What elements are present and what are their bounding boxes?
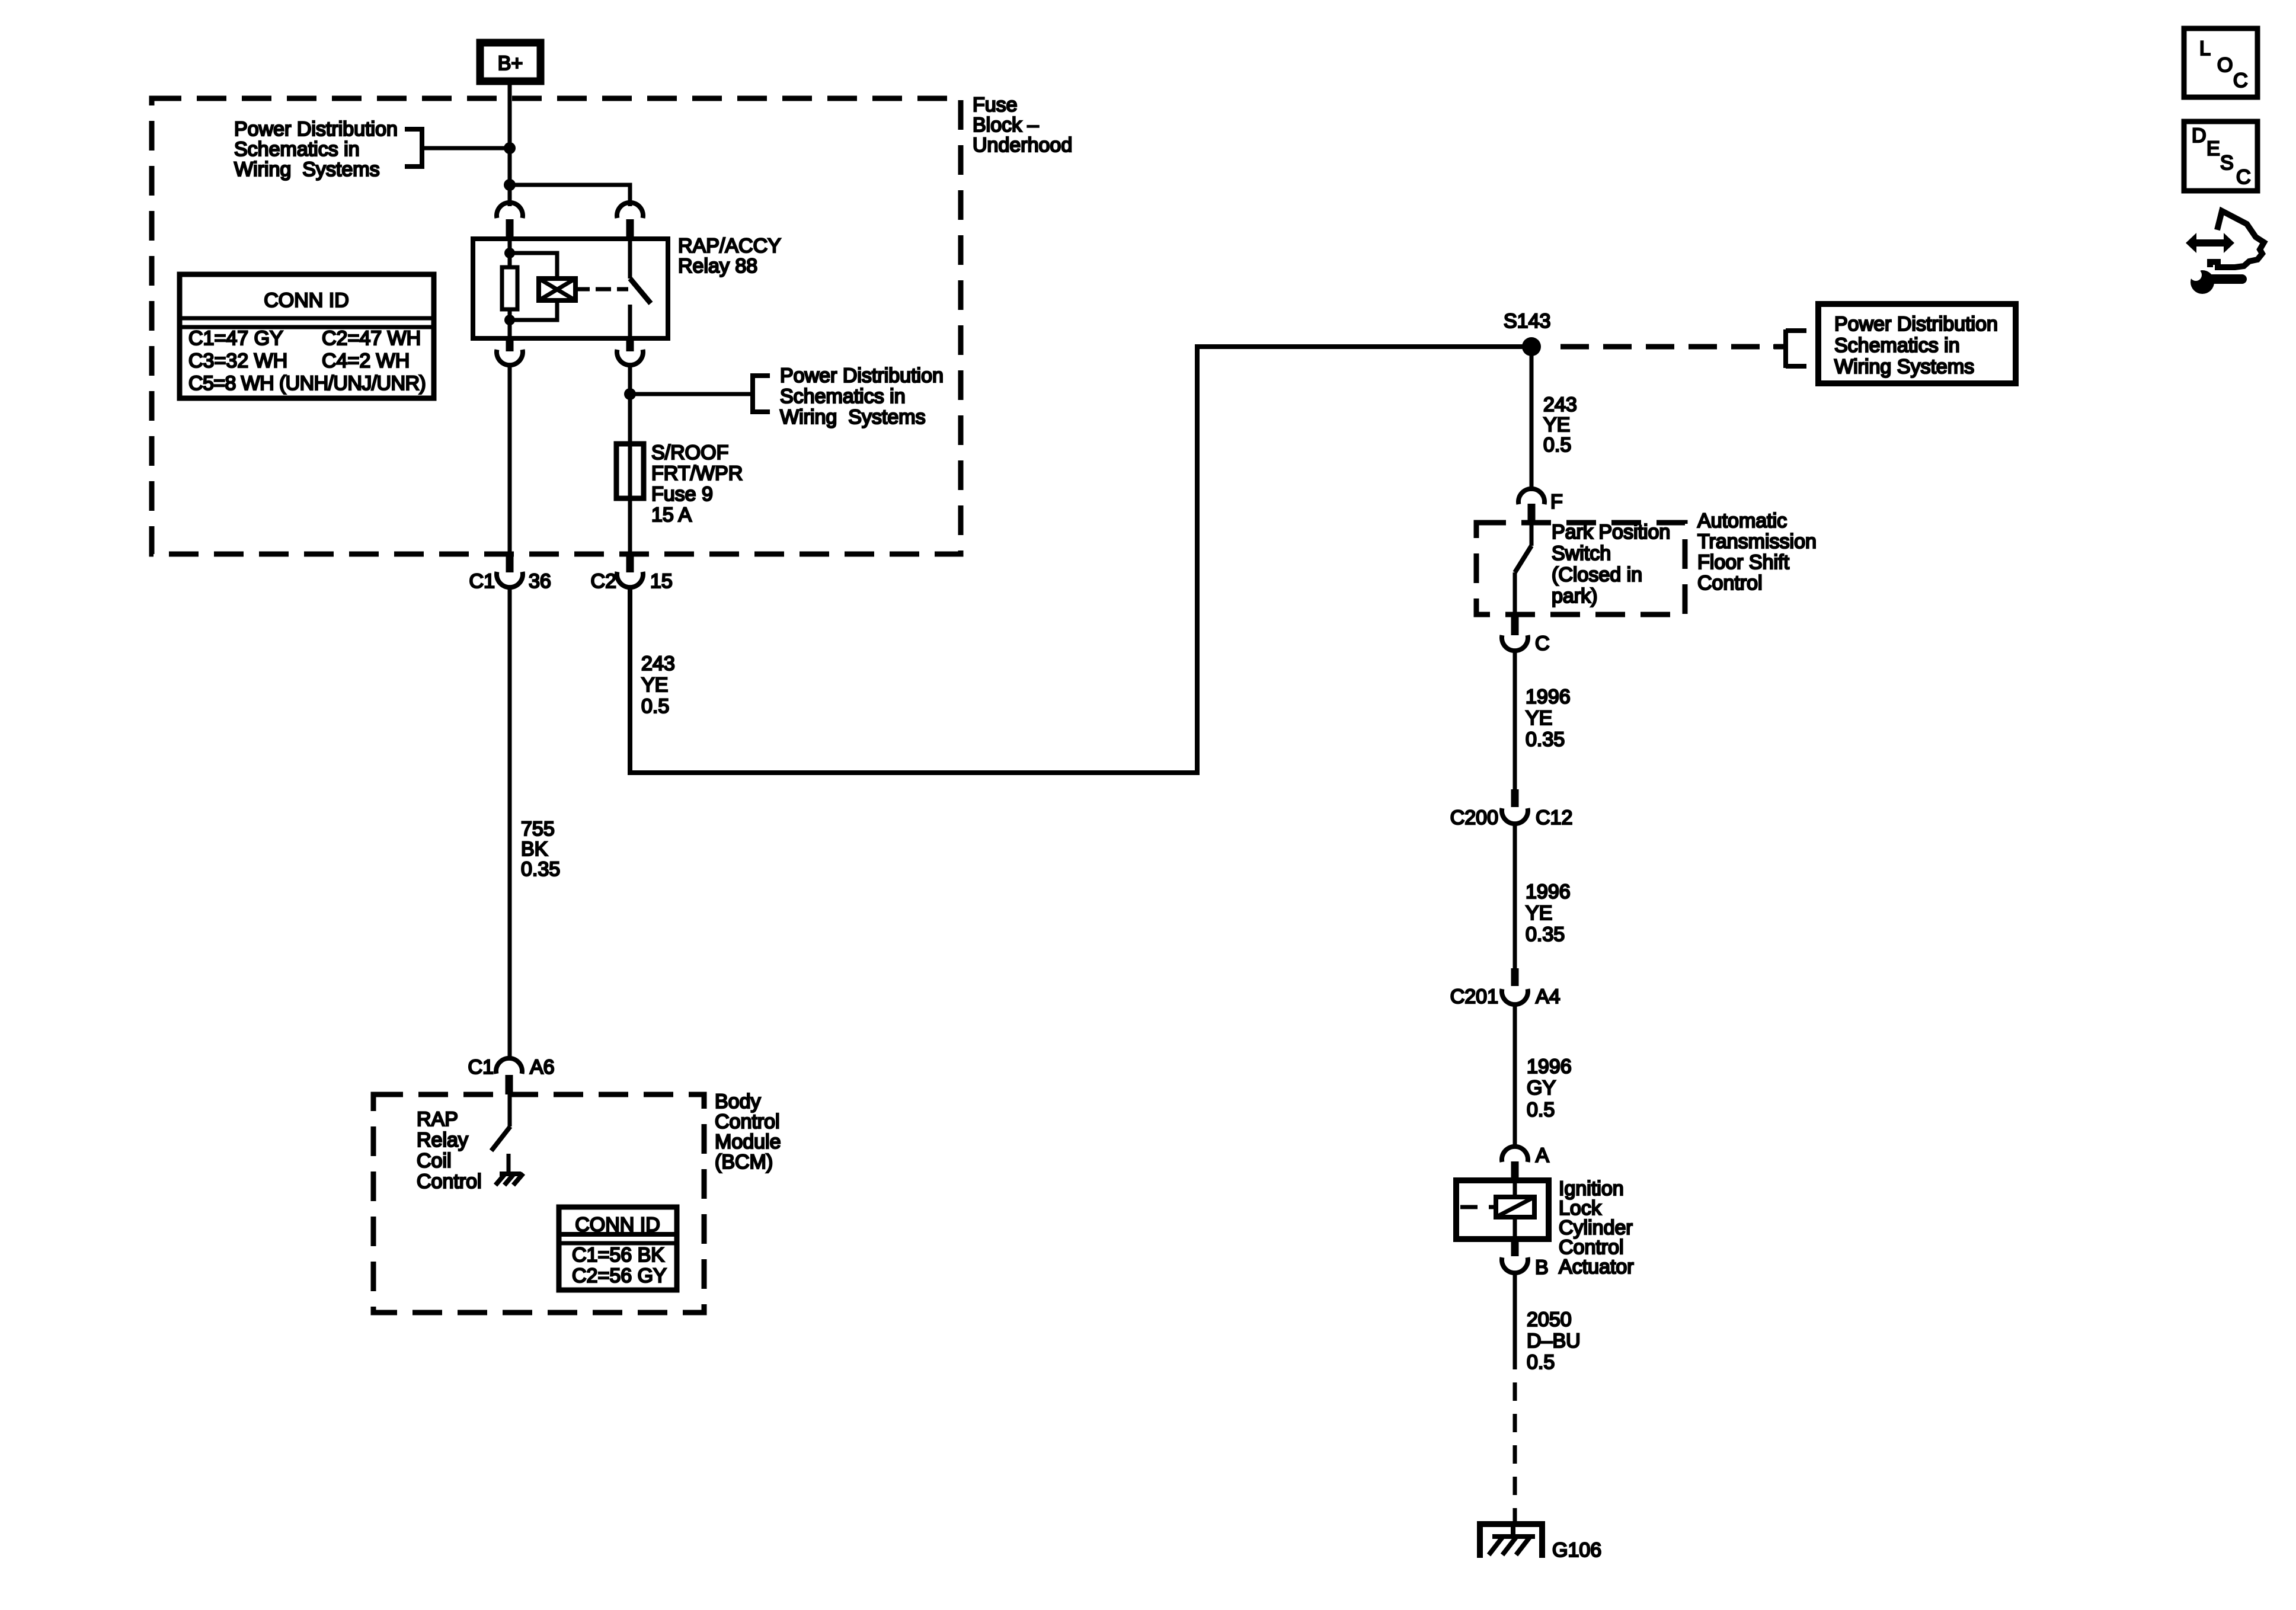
svg-text:Floor Shift: Floor Shift bbox=[1697, 551, 1789, 574]
connector below relay switch side (cup) bbox=[617, 350, 643, 365]
pin stub switch side bbox=[626, 219, 634, 239]
label wire 1996 YE 0.35 (2) bbox=[1526, 881, 1571, 946]
svg-text:B+: B+ bbox=[498, 52, 523, 75]
svg-text:YE: YE bbox=[641, 674, 668, 696]
svg-text:Power Distribution: Power Distribution bbox=[1834, 313, 1998, 335]
svg-text:36: 36 bbox=[529, 570, 551, 593]
label RAP Relay Coil Control bbox=[417, 1108, 482, 1193]
wire relay coil output down to C1 bbox=[508, 365, 512, 558]
connector A into actuator (dome) bbox=[1502, 1144, 1549, 1167]
icon DESC box bbox=[2184, 121, 2257, 191]
label Power Distribution Schematics (top left) bbox=[234, 118, 398, 181]
svg-text:B: B bbox=[1535, 1256, 1549, 1279]
wire relay switch output down to C2 bbox=[628, 365, 632, 558]
bracket to Power Distribution box bbox=[1773, 329, 1806, 368]
svg-text:Automatic: Automatic bbox=[1697, 510, 1787, 532]
wire B+ down bbox=[508, 81, 512, 206]
label wire 1996 GY 0.5 bbox=[1527, 1055, 1572, 1121]
svg-text:Relay: Relay bbox=[417, 1129, 468, 1151]
svg-text:2050: 2050 bbox=[1527, 1308, 1572, 1331]
node junction to power distribution tap bbox=[624, 388, 636, 400]
label Power Distribution Schematics (mid) bbox=[780, 364, 944, 428]
connector C200 pin C12 bbox=[1450, 789, 1573, 829]
wire dashed to G106 bbox=[1513, 1369, 1517, 1524]
svg-text:Power Distribution: Power Distribution bbox=[234, 118, 398, 140]
svg-text:Switch: Switch bbox=[1552, 542, 1611, 565]
svg-text:755: 755 bbox=[521, 818, 555, 840]
svg-text:Wiring Systems: Wiring Systems bbox=[1834, 356, 1974, 378]
label Automatic Transmission Floor Shift Control bbox=[1697, 510, 1817, 594]
label wire 2050 D-BU 0.5 bbox=[1527, 1308, 1581, 1374]
svg-text:Schematics in: Schematics in bbox=[234, 138, 360, 161]
svg-text:243: 243 bbox=[641, 652, 675, 675]
label RAP/ACCY Relay 88 bbox=[678, 235, 781, 277]
icon double arrow bbox=[2186, 233, 2234, 253]
svg-text:0.5: 0.5 bbox=[1527, 1099, 1555, 1121]
BCM dashed box bbox=[373, 1094, 704, 1313]
CONN ID table (BCM) bbox=[559, 1207, 677, 1290]
label Ignition Lock Cylinder Control Actuator bbox=[1559, 1177, 1634, 1278]
svg-text:(BCM): (BCM) bbox=[715, 1151, 773, 1173]
node coil top bbox=[504, 248, 515, 258]
svg-text:C200: C200 bbox=[1450, 806, 1498, 829]
svg-text:CONN ID: CONN ID bbox=[264, 289, 349, 312]
connector B below actuator (cup) bbox=[1502, 1239, 1549, 1279]
switch RAP relay coil control driver bbox=[491, 1094, 510, 1173]
wire relay coil vertical bbox=[508, 239, 512, 338]
svg-text:C2: C2 bbox=[591, 570, 616, 593]
svg-text:S143: S143 bbox=[1504, 310, 1550, 332]
pin stub into BCM bbox=[506, 1075, 513, 1094]
relay coil winding symbol bbox=[539, 279, 575, 300]
svg-text:BK: BK bbox=[521, 838, 548, 860]
solenoid symbol inside actuator bbox=[1496, 1197, 1534, 1217]
park position switch dashed box bbox=[1476, 523, 1685, 614]
svg-text:D–BU: D–BU bbox=[1527, 1330, 1581, 1352]
svg-text:C201: C201 bbox=[1450, 985, 1498, 1008]
svg-text:15 A: 15 A bbox=[651, 504, 692, 526]
pin stub A bbox=[1511, 1161, 1519, 1180]
label wire 755 BK 0.35 bbox=[521, 818, 560, 881]
wire through actuator bbox=[1513, 1180, 1517, 1239]
svg-text:1996: 1996 bbox=[1527, 1055, 1572, 1078]
relay U (RAP/ACCY Relay 88) box bbox=[473, 239, 668, 338]
wire junction to bracket bbox=[630, 392, 753, 396]
connector C below park switch (cup) bbox=[1502, 614, 1550, 655]
svg-text:C12: C12 bbox=[1536, 806, 1572, 829]
svg-text:243: 243 bbox=[1543, 393, 1577, 416]
power symbol B+ bbox=[480, 43, 541, 81]
svg-text:Fuse 9: Fuse 9 bbox=[651, 483, 713, 505]
ground internal BCM bbox=[495, 1173, 523, 1185]
CONN ID table (fuse block) bbox=[180, 274, 434, 398]
svg-text:YE: YE bbox=[1526, 707, 1552, 729]
wire dashed S143 to power distribution bbox=[1560, 344, 1786, 350]
node junction at bracket tap bbox=[504, 142, 516, 154]
wire branch to relay switch side bbox=[510, 185, 630, 206]
resistor relay coil suppression bbox=[502, 267, 517, 309]
svg-text:Module: Module bbox=[715, 1131, 781, 1153]
svg-text:1996: 1996 bbox=[1526, 881, 1571, 903]
svg-text:Schematics in: Schematics in bbox=[1834, 334, 1960, 357]
svg-text:C: C bbox=[2233, 69, 2248, 92]
mechanical link dashes bbox=[596, 287, 628, 292]
pin stub below relay switch side bbox=[626, 338, 634, 351]
svg-text:S: S bbox=[2220, 152, 2234, 174]
connector C2 pin 15 bbox=[591, 556, 673, 593]
wire 243 YE from C2 to S143 bbox=[630, 347, 1523, 773]
wire S143 down to F bbox=[1530, 354, 1534, 491]
bracket to Power Distribution (top left) bbox=[405, 129, 422, 167]
svg-text:C1=56 BK: C1=56 BK bbox=[572, 1244, 664, 1266]
connector below relay coil side (cup) bbox=[497, 350, 523, 365]
svg-text:Body: Body bbox=[715, 1090, 761, 1113]
wire 1996 GY segment bbox=[1513, 1004, 1517, 1146]
svg-text:C: C bbox=[1535, 632, 1550, 655]
svg-text:Transmission: Transmission bbox=[1697, 530, 1817, 553]
node coil bottom bbox=[504, 315, 515, 325]
connector C201 pin A4 bbox=[1450, 968, 1560, 1008]
label wire 243 YE 0.5 (left) bbox=[641, 652, 675, 718]
connector into relay switch pin (dome) bbox=[617, 203, 643, 218]
svg-text:0.5: 0.5 bbox=[1543, 434, 1571, 456]
svg-text:0.5: 0.5 bbox=[641, 695, 669, 718]
fuse F9 S/ROOF FRT/WPR bbox=[616, 444, 644, 498]
svg-text:0.35: 0.35 bbox=[521, 858, 560, 881]
svg-text:A6: A6 bbox=[530, 1056, 555, 1078]
pin stub coil side bbox=[506, 219, 514, 239]
wire 2050 D-BU solid segment bbox=[1513, 1273, 1517, 1369]
label Park Position Switch bbox=[1552, 521, 1670, 607]
svg-text:A4: A4 bbox=[1536, 985, 1560, 1008]
svg-text:C1: C1 bbox=[468, 1056, 494, 1078]
mechanical link dashes inside actuator bbox=[1460, 1205, 1496, 1209]
actuator M ignition lock cylinder control box bbox=[1456, 1180, 1549, 1239]
svg-text:Power Distribution: Power Distribution bbox=[780, 364, 944, 387]
ground G106 bbox=[1477, 1524, 1601, 1561]
bracket to Power Distribution (mid) bbox=[753, 376, 770, 412]
svg-text:Schematics in: Schematics in bbox=[780, 385, 906, 408]
wire bracket to B+ feed bbox=[422, 146, 510, 151]
svg-text:YE: YE bbox=[1543, 414, 1570, 436]
svg-text:O: O bbox=[2217, 54, 2233, 76]
label wire 243 YE 0.5 (right) bbox=[1543, 393, 1577, 456]
svg-text:L: L bbox=[2199, 37, 2211, 60]
svg-text:G106: G106 bbox=[1552, 1539, 1601, 1561]
svg-text:0.35: 0.35 bbox=[1526, 728, 1565, 751]
icon LOC box bbox=[2184, 28, 2257, 97]
svg-text:Wiring Systems: Wiring Systems bbox=[780, 406, 926, 428]
wire 1996 YE segment 1 bbox=[1513, 651, 1517, 790]
svg-text:C: C bbox=[2236, 166, 2251, 188]
icon pointer outline bbox=[2210, 211, 2264, 267]
connector C1 pin A6 (dome) bbox=[468, 1056, 555, 1078]
svg-text:S/ROOF: S/ROOF bbox=[651, 441, 728, 464]
svg-text:C2=56 GY: C2=56 GY bbox=[572, 1265, 667, 1287]
svg-text:park): park) bbox=[1552, 585, 1597, 607]
svg-text:FRT/WPR: FRT/WPR bbox=[651, 462, 743, 485]
wire coil actuation tick bbox=[575, 287, 590, 292]
svg-text:E: E bbox=[2207, 137, 2220, 160]
svg-text:Coil: Coil bbox=[417, 1150, 452, 1172]
connector into relay coil pin (dome) bbox=[497, 203, 523, 218]
pin stub F bbox=[1528, 504, 1536, 524]
svg-text:Block –: Block – bbox=[973, 114, 1039, 136]
svg-text:Control: Control bbox=[417, 1170, 482, 1193]
svg-text:CONN ID: CONN ID bbox=[575, 1214, 660, 1236]
svg-text:Relay 88: Relay 88 bbox=[678, 255, 757, 277]
svg-text:Actuator: Actuator bbox=[1559, 1256, 1634, 1278]
svg-text:C4=2 WH: C4=2 WH bbox=[322, 350, 410, 372]
svg-text:Control: Control bbox=[1697, 572, 1763, 594]
svg-text:Underhood: Underhood bbox=[973, 134, 1072, 156]
svg-text:0.5: 0.5 bbox=[1527, 1351, 1555, 1374]
wire coil loop bbox=[510, 253, 557, 320]
svg-text:0.35: 0.35 bbox=[1526, 923, 1565, 946]
svg-text:C5=8 WH (UNH/UNJ/UNR): C5=8 WH (UNH/UNJ/UNR) bbox=[188, 372, 426, 395]
svg-text:(Closed in: (Closed in bbox=[1552, 564, 1642, 586]
svg-text:15: 15 bbox=[650, 570, 673, 593]
svg-text:RAP/ACCY: RAP/ACCY bbox=[678, 235, 781, 257]
switch park position (closed in park) bbox=[1515, 523, 1531, 614]
svg-text:Control: Control bbox=[715, 1110, 780, 1133]
svg-text:YE: YE bbox=[1526, 902, 1552, 924]
svg-text:C1: C1 bbox=[469, 570, 495, 593]
label Body Control Module (BCM) bbox=[715, 1090, 781, 1173]
svg-text:C2=47 WH: C2=47 WH bbox=[322, 327, 421, 350]
icon wrench bbox=[2185, 264, 2242, 294]
box Power Distribution Schematics in Wiring Systems bbox=[1818, 304, 2016, 383]
svg-text:Park Position: Park Position bbox=[1552, 521, 1670, 543]
label Fuse 9 bbox=[651, 441, 743, 526]
svg-text:A: A bbox=[1536, 1144, 1549, 1167]
fuse block underhood dashed box bbox=[152, 98, 961, 554]
connector F into park switch (dome) bbox=[1518, 489, 1563, 513]
node junction at relay branch bbox=[504, 179, 516, 191]
svg-text:Fuse: Fuse bbox=[973, 94, 1018, 116]
switch relay contacts bbox=[630, 239, 651, 338]
connector C1 pin 36 bbox=[469, 556, 551, 593]
svg-text:C1=47 GY: C1=47 GY bbox=[188, 327, 283, 350]
pin stub below relay coil side bbox=[506, 338, 514, 351]
node S143 splice bbox=[1504, 310, 1550, 356]
svg-text:C3=32 WH: C3=32 WH bbox=[188, 350, 287, 372]
label Fuse Block - Underhood bbox=[973, 94, 1072, 156]
svg-text:D: D bbox=[2192, 124, 2207, 147]
svg-text:GY: GY bbox=[1527, 1077, 1556, 1099]
svg-text:F: F bbox=[1550, 491, 1563, 513]
svg-text:RAP: RAP bbox=[417, 1108, 458, 1131]
wire 1996 YE segment 2 bbox=[1513, 824, 1517, 969]
svg-text:1996: 1996 bbox=[1526, 686, 1571, 708]
label wire 1996 YE 0.35 (1) bbox=[1526, 686, 1571, 751]
wire 755 BK down to BCM bbox=[508, 587, 512, 1058]
svg-text:Wiring Systems: Wiring Systems bbox=[234, 158, 380, 181]
